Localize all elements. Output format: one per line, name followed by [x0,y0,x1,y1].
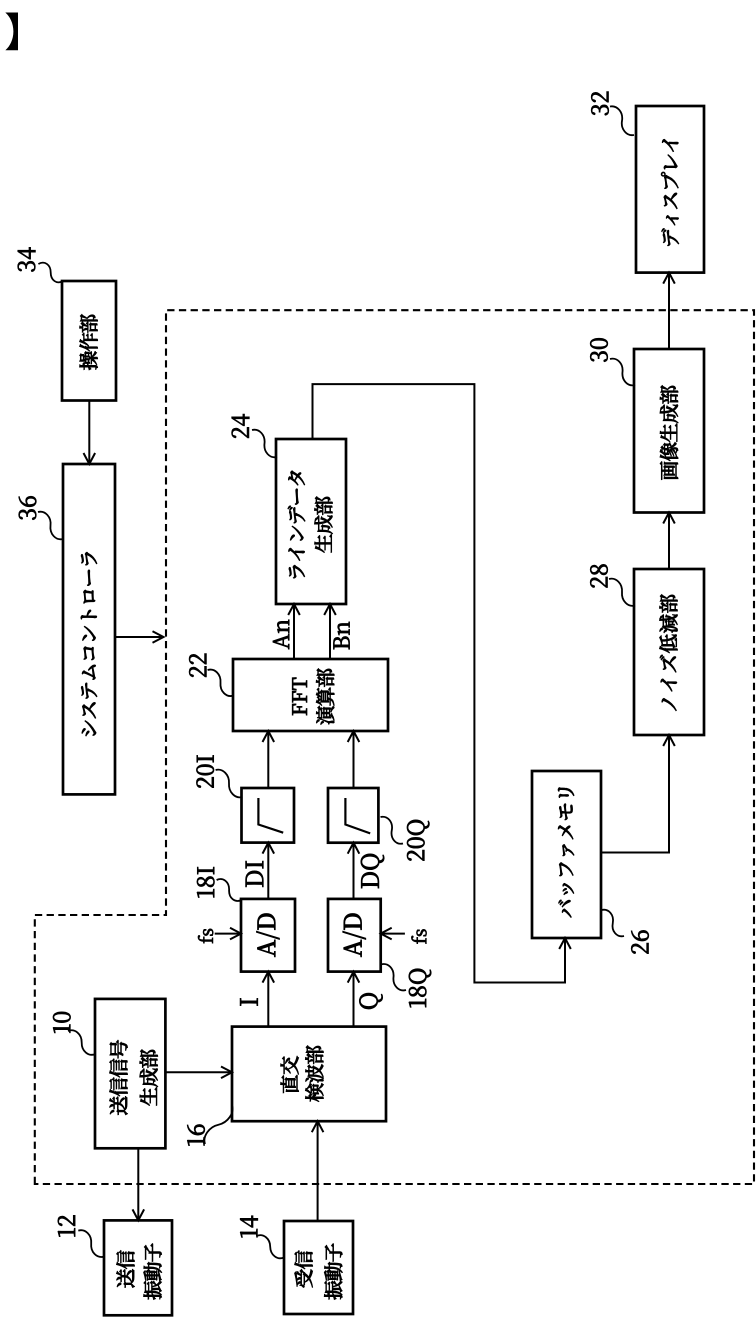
box 30 (image generator) [634,349,704,513]
text in box 32 [661,139,679,245]
box 22 (FFT unit) [233,659,388,731]
leader line for 22 [208,670,234,696]
reference numeral 14 [240,1216,257,1238]
reference numeral 12 [58,1216,75,1237]
text in box 14 line 1 [295,1251,313,1288]
box 14 (rx transducer) [284,1221,353,1314]
arrow fs to box18I [215,933,241,935]
box 20I (LPF I) [242,788,295,843]
text in box 10 line 2 [140,1050,158,1106]
leader line for 32 [610,106,634,135]
reference numeral 18Q [409,969,431,1007]
box 10 (tx signal generator) [95,999,165,1148]
box 28 (noise reducer) [634,569,704,735]
reference numeral 10 [53,1012,70,1033]
leader line for 30 [610,359,635,386]
text in box 16 line 1 [281,1056,299,1093]
arrow box34 to box36 [88,401,90,465]
text in box 22 line 2 [316,669,334,725]
text in box 36 [81,552,97,736]
reference numeral 20I [197,755,214,787]
text in box 18Q [343,914,366,957]
leader line for 18Q [381,964,406,990]
leader line for 34 [38,263,63,283]
reference numeral 20Q [407,820,429,861]
reference numeral 22 [189,654,206,677]
arrow DQ: box18Q to box20Q [353,843,355,899]
box 36 (system controller) [63,464,115,794]
text in box 16 line 2 [305,1046,323,1102]
box 12 (tx transducer) [104,1220,172,1315]
text in box 14 line 2 [324,1244,342,1300]
leader line for 26 [602,910,625,937]
leader line for 12 [78,1230,104,1257]
label fs upper [198,929,213,943]
text in box 12 line 1 [116,1250,134,1287]
arrow box20Q to box22 [353,731,355,788]
wire box24 to box26 (feedback loop) [313,384,566,982]
text in box 10 line 1 [110,1040,128,1115]
leader line for 36 [38,512,63,540]
text in box 30 [660,385,678,479]
reference numeral 28 [590,565,607,588]
leader line for 16 [204,1105,232,1144]
reference numeral 30 [590,338,607,361]
arrow box20I to box22 [267,731,269,788]
text in box 28 [660,594,678,710]
leader line for 10 [68,1030,95,1054]
label I [240,999,258,1006]
arrow fs to box18Q [381,933,405,935]
box 20Q (LPF Q) [328,788,378,843]
arrow Q: box16 to box18Q [353,972,355,1027]
label fs lower [412,929,427,943]
arrow box30 to box32 [668,273,670,349]
text in box 22 line 1 [292,678,307,715]
label DQ [361,854,384,888]
box 26 (buffer memory) [532,771,601,938]
reference numeral 32 [591,92,608,116]
box 18I (A/D converter I) [241,899,295,972]
arrow box10 to box12 [137,1148,139,1220]
arrow box10 to box16 [165,1071,232,1073]
LPF response icon in box 20Q [345,798,370,833]
LPF response icon in box 20I [258,798,283,833]
label An [273,620,289,649]
arrow box14 to box16 [317,1121,319,1221]
arrow DI: box18I to box20I [267,843,269,899]
reference numeral 26 [631,931,648,954]
dashed apparatus boundary [35,310,754,1184]
text in box 12 line 2 [144,1244,162,1300]
leader line for 24 [252,430,277,458]
label Q [359,993,382,1009]
reference numeral 34 [18,248,36,272]
arrow Bn: box22 to box24 [329,604,331,659]
reference numeral 16 [187,1125,204,1146]
arrow box28 to box30 [668,513,670,570]
leader line for 20I [216,770,243,798]
box 16 (quadrature detector) [232,1027,386,1122]
figure label bracket [6,13,19,51]
leader line for 14 [257,1235,285,1258]
arrow An: box22 to box24 [293,604,295,659]
text in box 34 [80,314,98,370]
wire box26 to box28 [601,735,669,853]
reference numeral 18I [197,867,214,897]
label DI [246,861,264,887]
box 24 (line data generator) [276,439,346,604]
arrow I: box16 to box18I [267,972,269,1027]
text in box 24 line 2 [315,497,333,553]
arrow box36 to apparatus boundary [115,636,164,638]
box 34 (operation unit) [62,281,116,401]
leader line for 18I [217,879,242,901]
text in box 18I [257,914,280,957]
text in box 24 line 1 [288,471,305,578]
leader line for 28 [609,579,635,606]
box 18Q (A/D converter Q) [328,899,381,972]
reference numeral 36 [19,496,36,519]
text in box 26 [558,788,574,918]
label Bn [334,622,350,649]
reference numeral 24 [232,414,250,438]
box 32 (display) [636,106,704,273]
leader line for 20Q [381,817,404,844]
